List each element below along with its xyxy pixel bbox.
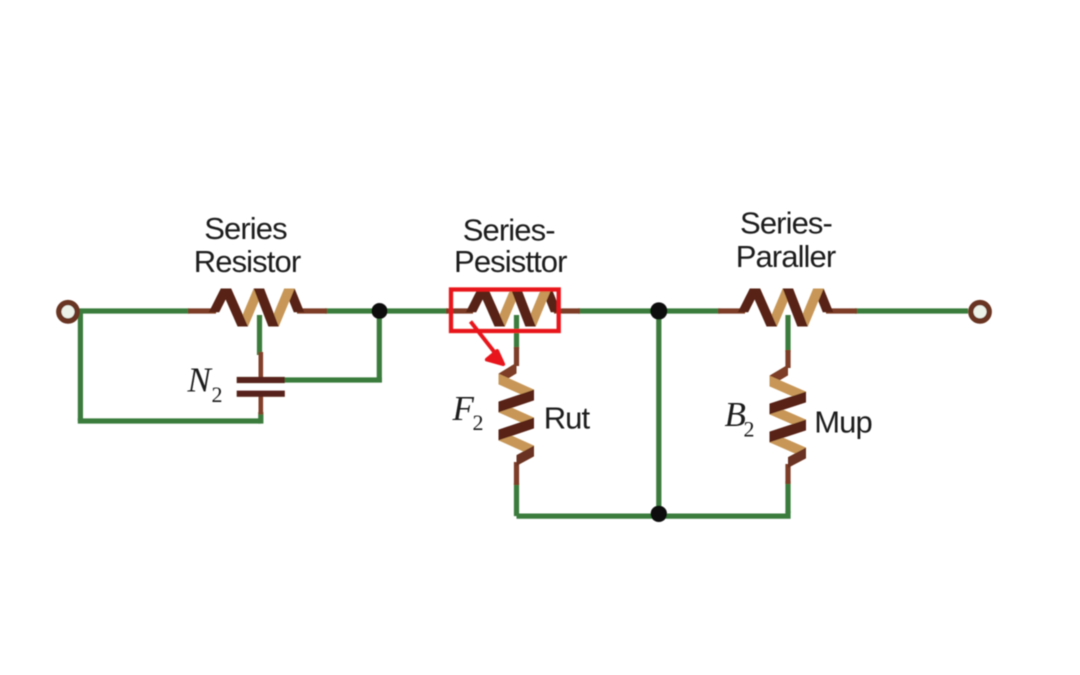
resistor B2 (Mup), vertical	[770, 350, 807, 484]
svg-text:N: N	[187, 360, 213, 399]
svg-text:Resistor: Resistor	[194, 244, 301, 279]
svg-text:2: 2	[473, 410, 484, 435]
terminal: left port	[59, 303, 77, 321]
svg-text:Series: Series	[204, 211, 287, 246]
wire: main line left terminal to R1	[80, 308, 190, 313]
highlight box around R2	[451, 290, 559, 332]
wire: R3 center tap green stub	[785, 315, 790, 352]
terminal: right port	[971, 303, 989, 321]
svg-text:Series-: Series-	[463, 213, 555, 248]
svg-text:F: F	[452, 389, 475, 428]
wire: F2 lower green lead	[514, 483, 519, 516]
svg-text:Mup: Mup	[814, 405, 872, 440]
wire: riser up to junction node A	[377, 311, 382, 382]
resistor R2 (Series-Pesisttor, boxed)	[446, 289, 580, 327]
node B junction dot	[650, 302, 667, 319]
node A junction dot	[372, 303, 388, 319]
resistor R3 (Series-Paraller)	[718, 289, 857, 327]
capacitor N2	[237, 352, 285, 415]
wire: capacitor bottom green riser	[258, 412, 263, 424]
wire: capacitor top plate to junction, horizontal	[284, 377, 382, 382]
red callout arrow	[471, 322, 504, 365]
node C bottom junction dot	[651, 506, 667, 522]
wire: R2 center tap green stub	[514, 315, 519, 349]
wire: main line R1 to R2	[325, 308, 448, 313]
wire: vertical at node B down to bottom rail	[656, 311, 661, 514]
svg-text:Pesisttor: Pesisttor	[454, 244, 567, 279]
svg-text:Rut: Rut	[544, 401, 591, 436]
wire: B2 lower green lead	[785, 481, 790, 513]
svg-text:2: 2	[744, 417, 755, 442]
svg-text:Paraller: Paraller	[736, 239, 836, 274]
wire: left terminal vertical drop	[78, 311, 83, 421]
wire: bottom-left horizontal to capacitor	[78, 418, 261, 423]
resistor F2 (Rut), vertical	[499, 347, 535, 485]
resistor R1 (Series Resistor)	[188, 289, 327, 327]
wire: bottom rail F2 to B2	[517, 511, 789, 516]
svg-text:2: 2	[212, 382, 223, 407]
wire: main line R3 to right terminal	[855, 308, 968, 313]
wire: main line R2 to R3	[578, 308, 720, 313]
svg-text:Series-: Series-	[740, 206, 832, 241]
wire: R1 center tap green stub	[257, 315, 262, 355]
